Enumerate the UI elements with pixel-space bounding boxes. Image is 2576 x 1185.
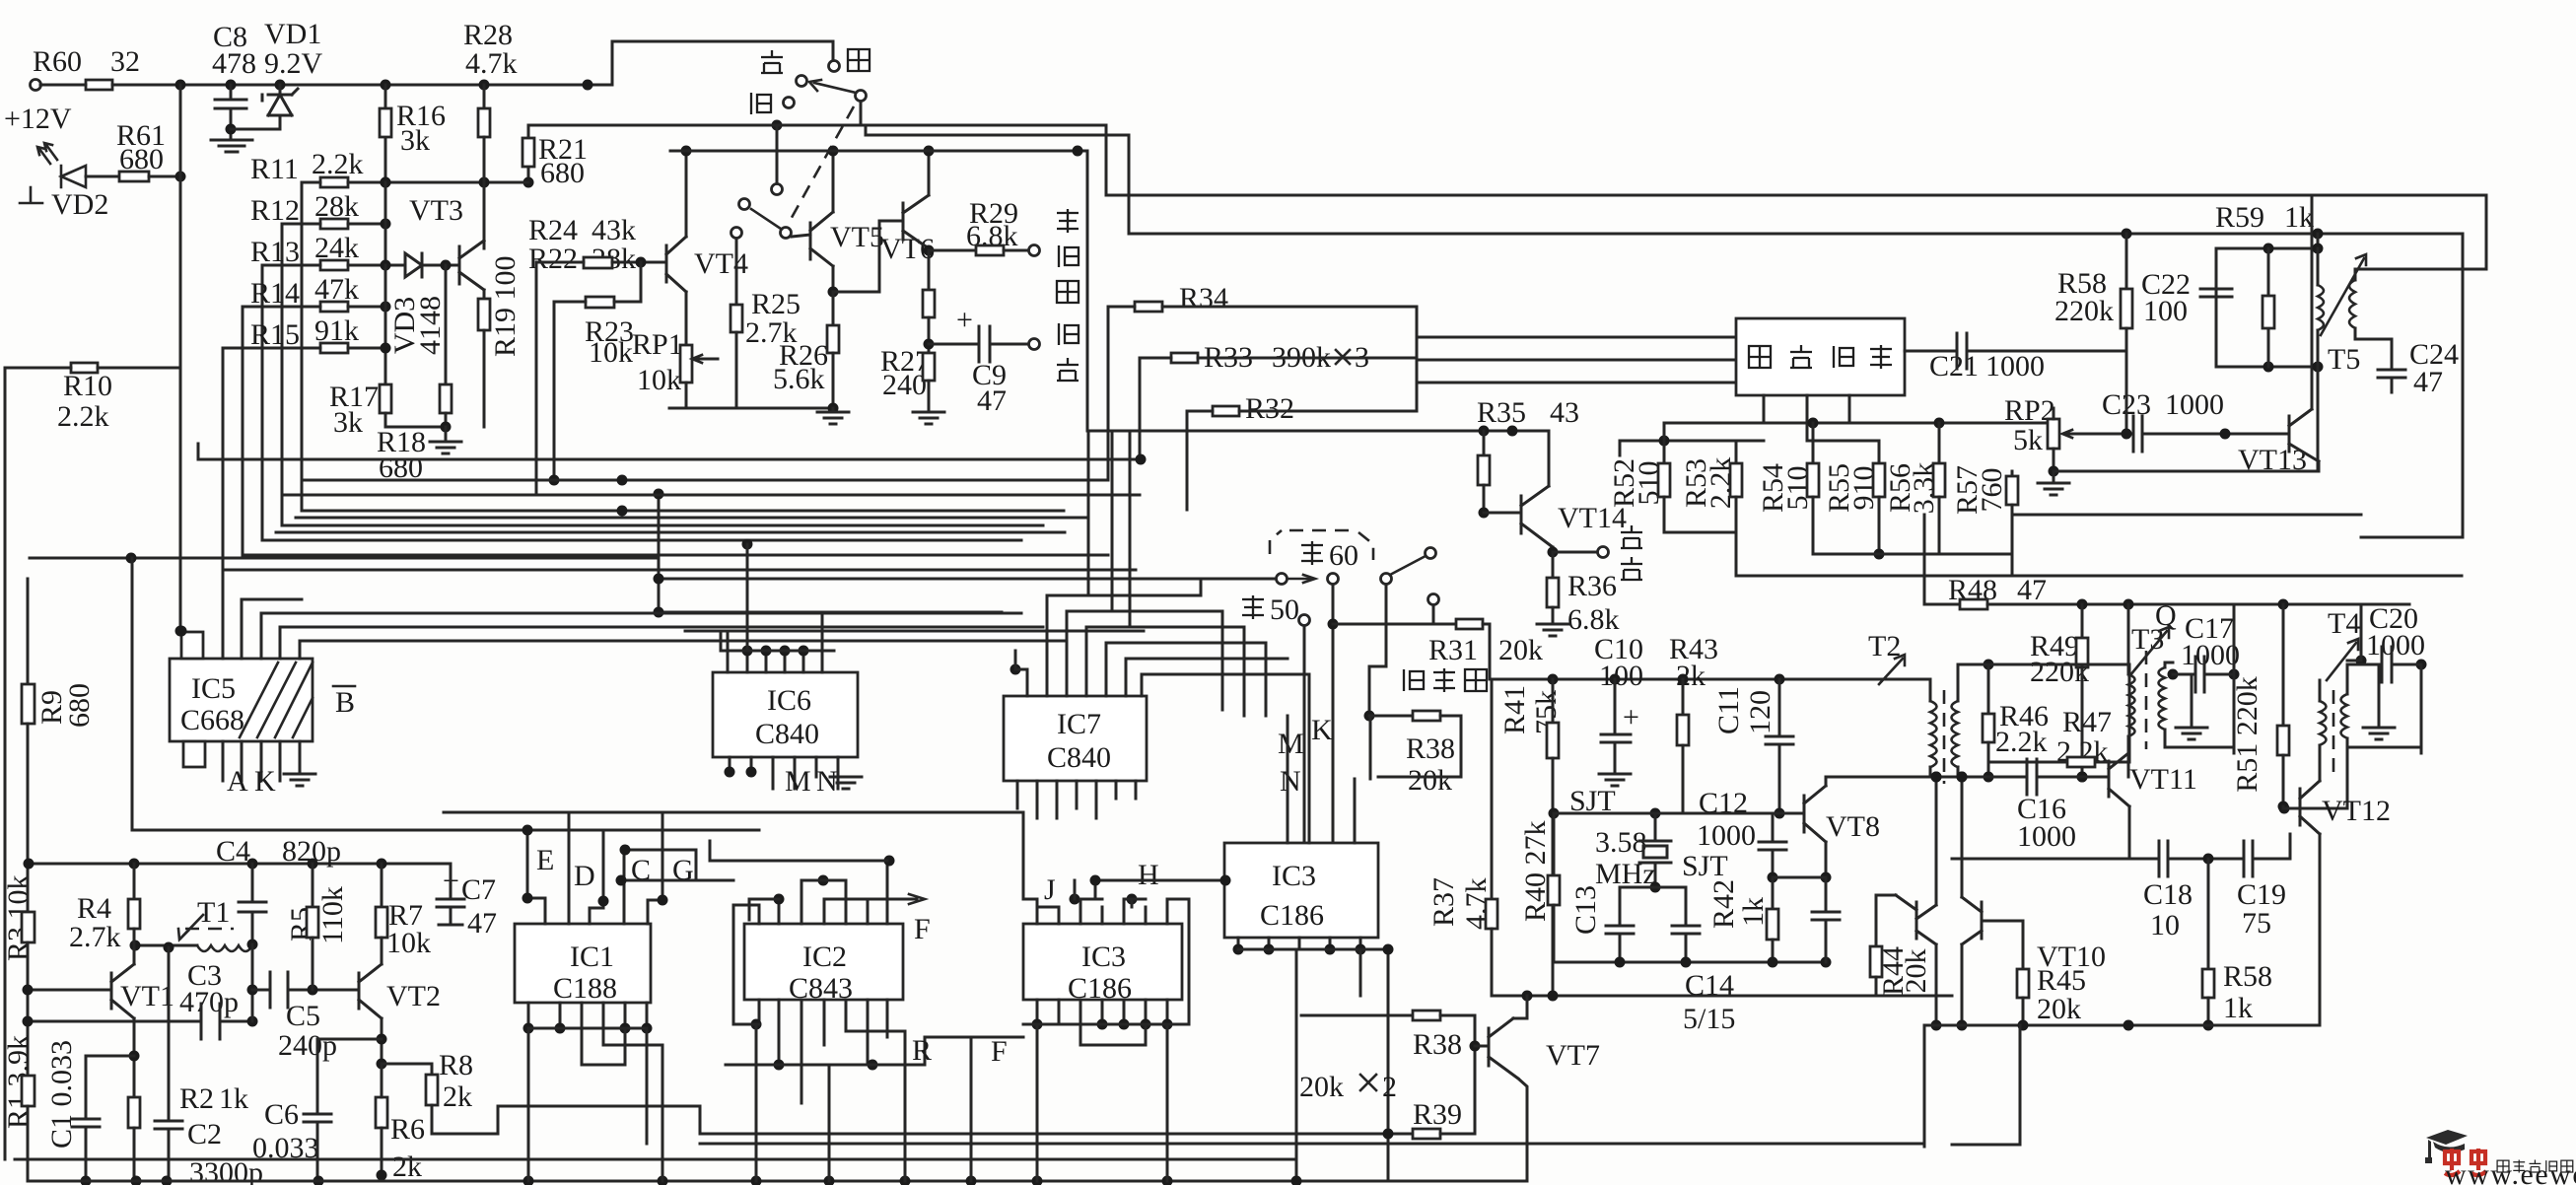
svg-text:10: 10 (2150, 909, 2180, 941)
R58 vertical from bus (2054, 229, 2132, 440)
svg-text:T4: T4 (2328, 607, 2360, 640)
nest lower wires (30, 489, 1276, 618)
node dots on top rail (175, 80, 593, 91)
svg-text:1000: 1000 (2017, 820, 2076, 853)
svg-text:47: 47 (2413, 366, 2443, 398)
switch label 彩 (848, 49, 870, 71)
transformer T1 (130, 896, 258, 953)
svg-text:J: J (1044, 873, 1056, 906)
svg-text:C18: C18 (2143, 878, 2193, 911)
svg-text:www.eeworm.com: www.eeworm.com (2445, 1158, 2576, 1185)
ground inside T4 tank (2363, 664, 2395, 739)
resistor R59 in loop (2263, 248, 2274, 367)
svg-text:IC2: IC2 (802, 941, 847, 973)
svg-text:R6: R6 (390, 1113, 425, 1146)
svg-text:1000: 1000 (1985, 350, 2045, 383)
svg-text:R2: R2 (179, 1082, 214, 1115)
crystal box bottom rail (1554, 957, 1832, 968)
svg-text:2.2k: 2.2k (1995, 726, 2048, 758)
svg-text:1k: 1k (219, 1082, 248, 1115)
resistor R42 1k (1707, 877, 1778, 962)
resistor R7 10k (376, 864, 431, 964)
arrow F out of IC2 (865, 894, 931, 945)
svg-text:R38: R38 (1413, 1028, 1462, 1061)
IC5 bottom pins (223, 741, 315, 798)
wire emitter rail with C3 (23, 1016, 258, 1027)
svg-text:32: 32 (110, 45, 140, 78)
wire R34 (1108, 282, 1417, 480)
svg-text:R32: R32 (1245, 392, 1294, 425)
resistor R3 10k (2, 724, 35, 1076)
IC7 C840 (1004, 696, 1147, 781)
capacitor C3 470p (179, 959, 239, 1039)
right edge vertical from bus B (2361, 536, 2463, 539)
capacitor C10 100 (1594, 633, 1643, 786)
labels R F (912, 1034, 1008, 1068)
svg-text:R15: R15 (250, 318, 300, 351)
resistor R14 47k (243, 265, 391, 555)
svg-text:F: F (914, 913, 931, 945)
label RP1 10k (632, 328, 683, 396)
vertical junction column x256 (247, 944, 258, 1021)
resistor R27 240 (880, 345, 944, 424)
IC5 top pins (223, 570, 1064, 659)
resistor R54 510 (1757, 423, 1819, 554)
svg-text:C668: C668 (180, 704, 244, 736)
IC7 bottom pins (1017, 781, 1136, 818)
wire control rail (1490, 624, 1930, 679)
wires from R1x ladder bending right (262, 475, 1140, 526)
svg-text:T5: T5 (2328, 343, 2360, 376)
wire H into IC3 (1095, 859, 1231, 891)
IC2 top pins (710, 841, 895, 1024)
R47 2.2k inside loop (1958, 664, 2129, 768)
transistor VT2 (359, 864, 441, 1064)
svg-text:20k: 20k (1900, 949, 1932, 994)
svg-text:VT2: VT2 (386, 980, 441, 1012)
svg-text:C188: C188 (553, 972, 617, 1005)
resistor R53 2.2k (1664, 441, 1764, 576)
color bar box 彩条形成 (1736, 318, 1905, 395)
resistor R28 4.7k (463, 19, 518, 248)
svg-text:2.2k: 2.2k (57, 400, 109, 433)
dark logo text 电子下载站 (2497, 1160, 2573, 1173)
top oscillator rail (132, 558, 759, 830)
svg-text:IC3: IC3 (1081, 941, 1126, 973)
svg-text:C5: C5 (286, 1000, 320, 1032)
svg-text:2: 2 (1382, 1071, 1397, 1103)
svg-text:VD1: VD1 (264, 18, 321, 50)
crystal 3.58 MHz (1595, 813, 1671, 893)
wire top power rail (40, 41, 833, 85)
switch lever with arrow (809, 80, 856, 93)
IC5 bottom stub (183, 741, 205, 767)
label B bar (333, 686, 355, 719)
svg-text:A: A (227, 765, 248, 798)
resistor R39 (700, 1098, 1475, 1140)
wire R35 43 (1477, 396, 1579, 519)
svg-text:B: B (335, 686, 355, 719)
emitter cap of VT8 (1812, 877, 1840, 962)
vertical text 去调制视出 (1057, 209, 1079, 381)
svg-text:240p: 240p (278, 1029, 337, 1062)
network bottom wires (1736, 515, 2462, 576)
svg-text:2.2k: 2.2k (312, 148, 364, 180)
IC6 C840 (713, 672, 858, 757)
svg-text:VT5: VT5 (830, 221, 884, 253)
svg-text:1000: 1000 (2181, 639, 2240, 671)
resistor R45 20k (2017, 921, 2086, 1025)
transformer T3 (2128, 604, 2169, 777)
svg-text:1k: 1k (1737, 897, 1770, 927)
resistor R38 20k upper (1369, 711, 1461, 797)
switch contact circles (784, 61, 867, 108)
390k x3 step block (1417, 307, 1736, 411)
long vertical from top rail to IC5 (175, 85, 186, 637)
IC5 top stub (176, 626, 204, 660)
svg-text:D: D (574, 860, 595, 892)
svg-text:RP1: RP1 (632, 328, 683, 361)
transistor VT6 (880, 146, 935, 266)
svg-text:R58: R58 (2223, 960, 2272, 993)
IC1 C188 (515, 924, 651, 1005)
svg-text:9.2V: 9.2V (264, 47, 323, 80)
svg-text:E: E (536, 844, 554, 876)
svg-text:4.7k: 4.7k (465, 47, 518, 80)
resistor R40 27k (1519, 813, 1560, 962)
bus A from switch pole to far right (528, 125, 2486, 269)
IC7 top pin nest (1010, 582, 1310, 716)
capacitor C5 240p (252, 972, 359, 1062)
svg-text:R60: R60 (33, 45, 82, 78)
svg-text:R41: R41 (1498, 685, 1531, 734)
svg-text:3k: 3k (400, 124, 430, 157)
svg-text:R10: R10 (63, 370, 112, 402)
resistor R31 20k (1333, 619, 1543, 666)
emitter rail with C18 C19 (1952, 834, 2290, 876)
bottom long rails (15, 1144, 1924, 1185)
svg-text:M: M (785, 765, 811, 798)
svg-text:+: + (1623, 701, 1639, 733)
transistor pair VT9 (1876, 772, 1942, 1026)
transformer T5 (2318, 248, 2392, 471)
svg-text:IC7: IC7 (1057, 708, 1101, 740)
svg-text:C11: C11 (1712, 686, 1745, 734)
capacitor C11 120 (1712, 674, 1793, 819)
svg-text:1000: 1000 (2165, 388, 2224, 421)
svg-text:C840: C840 (755, 718, 819, 750)
transistor VT13 (2238, 195, 2319, 476)
resistor R29 6.8k (929, 197, 1040, 256)
svg-text:+: + (956, 304, 973, 336)
svg-text:R12: R12 (250, 194, 300, 227)
IC1 top pins (522, 812, 668, 924)
transistor VT1 (23, 945, 175, 1021)
svg-text:R14: R14 (250, 277, 300, 310)
transistor VT11 (2077, 753, 2197, 859)
resistor R22 (536, 257, 666, 496)
svg-text:4148: 4148 (414, 296, 447, 355)
svg-text:680: 680 (540, 157, 585, 189)
svg-text:10k: 10k (589, 336, 633, 369)
svg-text:K: K (254, 765, 276, 798)
terminal +12V input (4, 45, 140, 135)
resistor R46 2.2k (1983, 660, 2049, 783)
resistor R36 6.8k (1537, 552, 1620, 636)
svg-text:10k: 10k (637, 364, 681, 396)
pin letters E D C G (536, 844, 694, 892)
svg-text:760: 760 (1976, 468, 2008, 513)
svg-text:R11: R11 (250, 153, 299, 185)
svg-text:IC5: IC5 (191, 672, 236, 705)
svg-text:3k: 3k (333, 406, 363, 439)
labels M N K around IC3 (1278, 714, 1333, 798)
resistor R12 28k (250, 182, 391, 525)
emitter ground rail (669, 407, 832, 410)
label C14 5/15 (1683, 969, 1735, 1035)
svg-text:C186: C186 (1068, 972, 1132, 1005)
svg-text:C843: C843 (789, 972, 853, 1005)
IC1 bottom pins (523, 1003, 663, 1181)
svg-text:20k: 20k (1299, 1071, 1344, 1103)
IC3 top pins (1023, 812, 1189, 1024)
svg-text:+12V: +12V (4, 103, 72, 135)
svg-text:60: 60 (1329, 539, 1358, 572)
svg-text:C6: C6 (264, 1098, 299, 1131)
svg-text:R51 220k: R51 220k (2231, 676, 2263, 793)
switch label 灰 (761, 50, 783, 73)
switch label 格 (751, 93, 771, 114)
transistor VT3 (459, 137, 484, 299)
svg-text:H: H (1138, 859, 1159, 891)
svg-text:1000: 1000 (2366, 629, 2425, 662)
capacitor C24 47 (2378, 338, 2459, 398)
resistor R44 20k (1870, 895, 1932, 996)
resistor R57 760 (1951, 465, 2018, 554)
svg-text:C4: C4 (216, 835, 250, 868)
tank loop R59/C22 (2216, 229, 2324, 373)
capacitor C1 0.033 (45, 1040, 134, 1185)
svg-text:100: 100 (2143, 295, 2188, 327)
capacitor C16 1000 (1826, 759, 2109, 853)
resistor R58 1k lower (2202, 859, 2272, 1031)
svg-text:47: 47 (467, 907, 497, 940)
svg-text:478: 478 (212, 47, 256, 80)
pole drop wire (860, 102, 863, 125)
label 场50 (1242, 593, 1299, 626)
nest horizontal bus wires (198, 444, 1147, 555)
label Q (2155, 599, 2177, 632)
svg-text:R36: R36 (1567, 570, 1617, 602)
svg-text:VT8: VT8 (1826, 810, 1880, 843)
vertical feeders crossing (1088, 431, 1130, 627)
resistor R26 5.6k (773, 292, 839, 414)
label J (1044, 873, 1056, 906)
svg-text:R38: R38 (1406, 732, 1455, 765)
resistor R56 3.3k (1884, 423, 1945, 554)
VT13 emitter rail (2054, 470, 2319, 473)
resistor R61 (116, 119, 186, 182)
transistor VT8 (1773, 777, 1880, 883)
capacitor C13 (1569, 885, 1655, 962)
svg-text:R8: R8 (439, 1049, 473, 1081)
switch drop wires (1299, 585, 1434, 843)
capacitor C2 3300p (155, 947, 263, 1185)
box bottom pins (1764, 395, 1849, 441)
bus C collector rail (670, 146, 1549, 432)
label C12 1000 SJT (1682, 787, 1756, 882)
svg-text:C1 0.033: C1 0.033 (45, 1040, 78, 1149)
audio out terminal 音出 (1553, 525, 1642, 580)
svg-text:IC1: IC1 (570, 941, 614, 973)
svg-text:75: 75 (2242, 907, 2271, 940)
tank T4 loop with C20 (2347, 602, 2427, 753)
dashed switch bracket (1270, 530, 1373, 560)
svg-text:470p: 470p (179, 986, 239, 1018)
resistor R13 24k (250, 232, 400, 540)
svg-text:VT3: VT3 (409, 194, 463, 227)
resistor R49 220k (2030, 604, 2089, 783)
left border wires (5, 368, 28, 1181)
potentiometer RP1 (680, 345, 718, 408)
crystal box top rail SJT (1549, 785, 1805, 819)
svg-text:IC6: IC6 (767, 684, 811, 717)
bottom right rail (1924, 834, 2320, 1147)
resistor network top wires (1620, 408, 2054, 455)
nest feed wires upper (276, 475, 1086, 533)
label 20k x2 (1299, 1071, 1397, 1103)
svg-text:6.8k: 6.8k (1567, 603, 1620, 636)
svg-text:F: F (991, 1035, 1008, 1068)
svg-text:20k: 20k (1408, 764, 1452, 797)
resistor R43 2k (1669, 633, 1718, 813)
resistor R52 510 (1608, 441, 1670, 532)
capacitor C6 0.033 (252, 1039, 382, 1185)
www.eeworm.com (2445, 1158, 2576, 1185)
transistor VT5 (792, 146, 884, 298)
svg-text:R37: R37 (1427, 877, 1460, 927)
svg-text:680: 680 (63, 683, 96, 728)
IC5 C668 (170, 659, 313, 741)
ground under VT5 (817, 408, 849, 424)
svg-text:C12: C12 (1699, 787, 1748, 819)
svg-text:SJT: SJT (1682, 850, 1728, 882)
svg-text:R42: R42 (1707, 879, 1740, 929)
resistor R38 lower (1301, 1011, 1475, 1061)
svg-text:50: 50 (1270, 593, 1299, 626)
field switch contacts (1277, 548, 1439, 605)
svg-text:10k: 10k (386, 927, 431, 959)
VT5 emitter to VT6 base (833, 221, 903, 292)
svg-text:R13: R13 (250, 236, 300, 268)
label R59 1k (2215, 201, 2314, 234)
svg-text:IC3: IC3 (1272, 860, 1316, 892)
svg-text:C21: C21 (1929, 350, 1979, 383)
svg-text:K: K (1311, 714, 1333, 746)
svg-text:R: R (912, 1034, 932, 1067)
transistor VT10 (1931, 772, 2107, 1031)
T2 transformer (1868, 630, 1958, 784)
resistor R51 220k (2231, 604, 2289, 812)
svg-text:1k: 1k (2223, 992, 2253, 1024)
resistor ladder R11 2.2k (250, 148, 528, 511)
svg-text:2k: 2k (392, 1150, 422, 1183)
red logo 虫虫 (2445, 1149, 2486, 1175)
wire R33 390k x3 (1140, 341, 1417, 459)
svg-text:R34: R34 (1179, 282, 1228, 314)
bottom-left corner hook right section (1952, 1025, 2020, 1145)
svg-text:1k: 1k (2284, 201, 2314, 234)
IC3 C186 center (1023, 924, 1182, 1005)
svg-text:T1: T1 (197, 896, 230, 929)
IC6 top pins (685, 539, 1144, 673)
svg-text:R39: R39 (1413, 1098, 1462, 1131)
capacitor C12 (1759, 813, 1786, 883)
resistor R10 2.2k (5, 363, 180, 433)
transistor VT7 (1470, 996, 1601, 1181)
wire R48 47 (1924, 515, 2409, 610)
svg-text:C13: C13 (1569, 885, 1602, 935)
resistor R37 4.7k (1427, 679, 1497, 996)
transistor VT14 (1484, 431, 1627, 558)
resistor R9 680 (22, 579, 96, 990)
label 场60 (1301, 539, 1358, 572)
resistor R4 2.7k (69, 864, 140, 953)
svg-text:2k: 2k (443, 1080, 472, 1113)
svg-text:110k: 110k (316, 886, 349, 944)
svg-text:47: 47 (2017, 574, 2047, 606)
transistor VT12 (2279, 747, 2392, 857)
resistor R19 100 (478, 255, 522, 427)
svg-text:20k: 20k (2037, 993, 2081, 1025)
resistor R21 680 (522, 125, 588, 189)
svg-text:N: N (816, 765, 838, 798)
ground inside T3 tank (2176, 692, 2207, 739)
svg-text:5.6k: 5.6k (773, 363, 825, 395)
resistor R25 2.7k (731, 239, 801, 408)
svg-text:120: 120 (1744, 690, 1776, 734)
IC3 upper top pins (1288, 674, 1370, 843)
LED VD2 (20, 143, 119, 221)
IC3 bottom pins (1023, 1000, 1189, 1181)
capacitor C8 478 (211, 21, 256, 152)
svg-text:C2: C2 (187, 1118, 222, 1150)
svg-text:M: M (1278, 728, 1304, 760)
svg-text:C186: C186 (1260, 899, 1324, 932)
svg-text:VT1: VT1 (120, 980, 174, 1012)
IC6 bottom pins (725, 757, 863, 798)
resistor R2 (128, 1021, 142, 1185)
capacitor C23 1000 (2085, 388, 2289, 452)
transistor VT4 (666, 146, 748, 346)
resistor R8 2k (382, 1049, 700, 1134)
svg-text:R35: R35 (1477, 396, 1526, 429)
svg-text:N: N (1280, 765, 1301, 798)
capacitor C7 47 (437, 864, 497, 940)
svg-text:240: 240 (882, 369, 927, 401)
wires feeding IC1 top (444, 812, 1023, 886)
svg-text:VT12: VT12 (2322, 795, 2391, 827)
resistor R5 110k (285, 864, 349, 990)
resistor R6 2k (376, 1059, 425, 1184)
svg-text:43: 43 (1550, 396, 1579, 429)
svg-text:VT7: VT7 (1546, 1039, 1600, 1072)
label R2 1k (179, 1082, 248, 1115)
capacitor C9 47 (929, 304, 1040, 417)
wire R32 (1187, 392, 1417, 510)
resistor R16 3k (380, 85, 446, 188)
svg-text:C840: C840 (1047, 741, 1111, 774)
